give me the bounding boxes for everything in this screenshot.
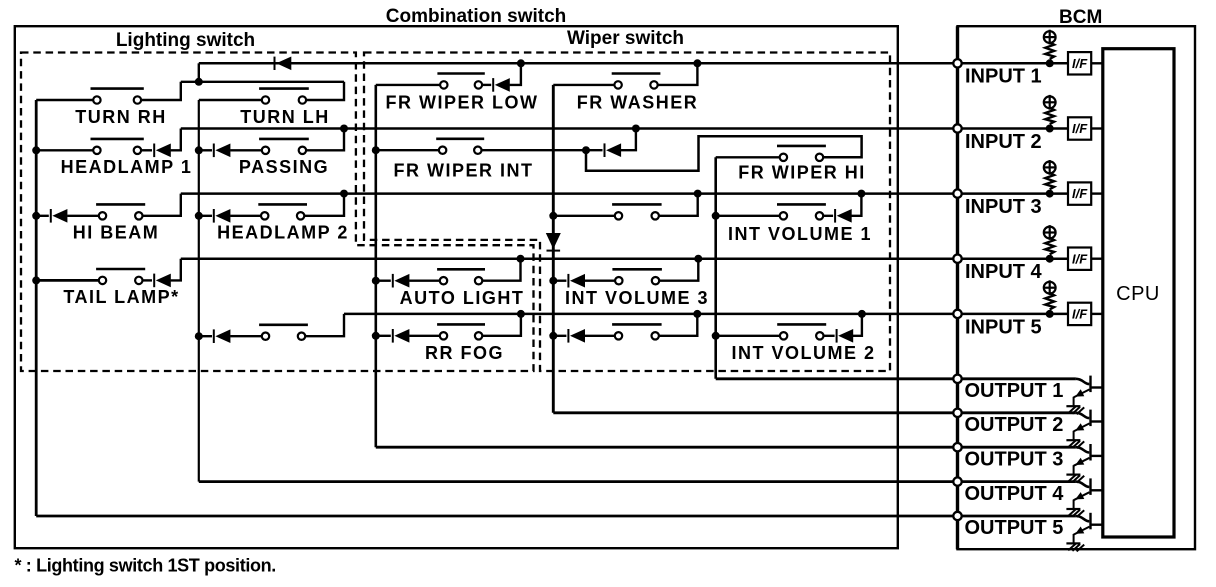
wire HEADLAMP 2 right lead — [304, 194, 344, 216]
junction autolight bus — [372, 277, 380, 285]
junction passing bus — [195, 146, 203, 154]
note lighting 1ST position — [15, 556, 276, 576]
svg-text:TAIL LAMP*: TAIL LAMP* — [63, 287, 179, 307]
ground Q1 — [1066, 406, 1084, 414]
svg-text:CPU: CPU — [1116, 283, 1160, 305]
svg-text:* : Lighting switch 1ST positi: * : Lighting switch 1ST position. — [15, 556, 276, 576]
label TURN LH — [240, 107, 330, 127]
power symbol battery 3 — [1044, 160, 1056, 175]
diode D3 passing — [214, 144, 231, 158]
label HI BEAM — [73, 223, 160, 243]
wire int sw2 left lead — [585, 335, 615, 337]
wire int sw1 right lead — [659, 194, 698, 216]
junction intvolume2 bus — [712, 332, 720, 340]
svg-text:INPUT 4: INPUT 4 — [965, 261, 1043, 283]
svg-text:I/F: I/F — [1072, 56, 1088, 71]
label AUTO LIGHT — [400, 288, 525, 308]
switch FR WIPER INT — [436, 139, 484, 154]
interface I/F 1 — [1068, 52, 1091, 74]
wire INPUT 4 — [181, 257, 1068, 260]
wire headlamp1 riser to INPUT 2 — [171, 129, 181, 151]
wire I/F 4 to CPU — [1091, 258, 1103, 260]
node INPUT 2 — [953, 124, 961, 132]
label TURN RH — [75, 107, 167, 127]
wire HI BEAM right lead — [142, 194, 181, 216]
power symbol battery 1 — [1044, 30, 1056, 45]
junction intvolume3 INPUT 4 — [694, 255, 702, 263]
junction frwasher INPUT 1 — [693, 59, 701, 67]
switch HEADLAMP 1 — [91, 139, 144, 154]
wire turn common — [181, 81, 344, 83]
wire frwiperint to frwiperhi link — [586, 136, 862, 171]
wire turn riser to INPUT 1 — [198, 63, 200, 82]
diode D1 turn to INPUT 1 — [248, 57, 297, 71]
wire TURN RH right lead — [141, 82, 181, 100]
transistor Q1 — [1074, 376, 1103, 407]
wire intvolume1 riser to INPUT 3 — [852, 194, 862, 216]
junction INPUT 4 pull-up — [1046, 255, 1054, 263]
junction INPUT 5 pull-up — [1046, 310, 1054, 318]
wire INPUT 2 — [181, 127, 1068, 130]
ground Q2 — [1066, 440, 1084, 448]
svg-text:I/F: I/F — [1072, 121, 1088, 136]
wire OUTPUT 3 — [376, 446, 1076, 449]
switch INT VOLUME 3 — [612, 269, 662, 284]
node OUTPUT 1 — [953, 375, 961, 383]
junction int sw2 INPUT 5 — [693, 310, 701, 318]
wire TAIL LAMP right lead — [142, 279, 152, 281]
interface I/F 4 — [1068, 248, 1091, 270]
wire PASSING right lead — [306, 129, 344, 151]
wire INT VOLUME 2 right lead — [823, 335, 835, 337]
svg-text:TURN LH: TURN LH — [240, 107, 330, 127]
diode D12 autolight — [393, 274, 410, 288]
wire FR WIPER INT right lead — [481, 149, 586, 151]
wire OUTPUT 4 — [199, 480, 1076, 483]
svg-text:I/F: I/F — [1072, 186, 1088, 201]
switch TURN RH — [91, 89, 144, 104]
label INPUT 5 — [965, 316, 1042, 338]
svg-text:INPUT 5: INPUT 5 — [965, 316, 1042, 338]
switch FR WIPER LOW — [437, 74, 484, 89]
label Lighting switch — [116, 30, 255, 51]
junction INPUT 3 pull-up — [1046, 190, 1054, 198]
wire I/F 3 to CPU — [1091, 192, 1103, 194]
wire washer bus — [552, 85, 555, 413]
junction taillamp bus — [32, 276, 40, 284]
junction intvolume2 INPUT 5 — [858, 310, 866, 318]
wire INT VOLUME 1 left lead — [716, 215, 780, 217]
label OUTPUT 3 — [965, 448, 1064, 470]
interface I/F 2 — [1068, 117, 1091, 139]
svg-text:OUTPUT 1: OUTPUT 1 — [965, 380, 1064, 402]
transistor Q4 — [1074, 478, 1103, 509]
switch TAIL LAMP — [96, 269, 145, 284]
svg-text:INT VOLUME 1: INT VOLUME 1 — [728, 224, 872, 244]
svg-text:INT VOLUME 3: INT VOLUME 3 — [565, 288, 709, 308]
wire HI BEAM left lead — [67, 215, 99, 217]
wire OUTPUT 5 — [36, 515, 1076, 518]
svg-text:I/F: I/F — [1072, 251, 1088, 266]
wire OUTPUT 2 — [553, 411, 1076, 414]
power symbol battery 5 — [1044, 280, 1056, 295]
diode D13 intvolume3 — [568, 274, 585, 288]
svg-text:OUTPUT 3: OUTPUT 3 — [965, 448, 1064, 470]
svg-text:OUTPUT 2: OUTPUT 2 — [965, 414, 1064, 436]
node OUTPUT 5 — [953, 512, 961, 520]
wire taillamp riser to INPUT 4 — [171, 259, 181, 281]
wire HI BEAM diode lead — [36, 215, 49, 217]
switch FR WASHER — [612, 74, 661, 89]
switch S3 wiper int 2 — [612, 324, 662, 339]
wire INT VOLUME 2 left lead — [716, 335, 781, 337]
label Wiper switch — [567, 28, 684, 49]
wire INT VOLUME 3 diode lead — [553, 280, 566, 282]
svg-text:INPUT 2: INPUT 2 — [965, 131, 1042, 153]
resistor R1 pull-up — [1045, 43, 1054, 59]
wire INPUT 5 — [344, 313, 1068, 316]
junction intvolume3 bus — [549, 277, 557, 285]
diode D16 intvolume2 — [837, 329, 854, 343]
wire int sw2 right lead — [659, 314, 698, 336]
label FR WIPER INT — [394, 161, 534, 181]
junction frwiperint node — [582, 146, 590, 154]
junction rrfog INPUT 5 — [517, 310, 525, 318]
wire INT VOLUME 3 right lead — [659, 259, 699, 281]
wire FR WIPER HI left lead — [716, 156, 780, 158]
diode D6 taillamp — [154, 274, 171, 288]
transistor Q3 — [1074, 444, 1103, 475]
diode D11 washer bus — [546, 233, 561, 251]
diode D15 int sw2 — [568, 329, 585, 343]
resistor R3 pull-up — [1045, 173, 1054, 189]
junction headlamp1 bus — [32, 146, 40, 154]
label TAIL LAMP* — [63, 287, 179, 307]
junction frwiperint INPUT 2 — [632, 125, 640, 133]
label OUTPUT 4 — [965, 483, 1065, 505]
wire TURN LH left lead — [199, 99, 262, 101]
label FR WIPER HI — [738, 163, 866, 183]
wire frwiperint riser to INPUT 2 — [621, 129, 636, 151]
wire OUTPUT 1 — [716, 377, 1076, 380]
wire output1 bus — [714, 157, 717, 378]
wire HEADLAMP 1 left lead — [36, 149, 93, 151]
CPU box U1 — [1103, 49, 1174, 537]
wire int sw2 diode lead — [553, 335, 566, 337]
switch TURN LH — [259, 89, 309, 104]
wire FR WASHER left lead — [553, 84, 615, 86]
diode D7 lighting row5 — [214, 329, 231, 343]
svg-text:Lighting switch: Lighting switch — [116, 30, 255, 51]
label INPUT 1 — [965, 66, 1042, 88]
switch S2 wiper int — [612, 204, 662, 219]
switch PASSING — [259, 139, 309, 154]
label FR WASHER — [577, 92, 699, 112]
svg-text:Combination switch: Combination switch — [386, 6, 567, 27]
wire RR FOG left lead — [409, 335, 440, 337]
wire AUTO LIGHT left lead — [409, 280, 440, 282]
diode D9 frwiperint — [605, 143, 622, 157]
diode D10 intvolume1 — [835, 209, 852, 223]
svg-text:BCM: BCM — [1059, 7, 1102, 28]
wire INPUT 3 — [181, 192, 1068, 195]
wire RR FOG right lead — [482, 314, 521, 336]
wire I/F 5 to CPU — [1091, 313, 1103, 315]
node OUTPUT 4 — [953, 477, 961, 485]
wire TURN LH right lead — [306, 82, 344, 100]
node INPUT 5 — [953, 310, 961, 318]
junction passing INPUT 2 — [340, 125, 348, 133]
junction headlamp2 INPUT 3 — [340, 190, 348, 198]
wire I/F 2 to CPU — [1091, 127, 1103, 129]
node INPUT 1 — [953, 59, 961, 67]
svg-text:RR FOG: RR FOG — [425, 343, 504, 363]
wire int sw1 left lead — [553, 215, 615, 217]
svg-text:AUTO LIGHT: AUTO LIGHT — [400, 288, 525, 308]
junction turn node — [195, 78, 203, 86]
svg-text:Wiper switch: Wiper switch — [567, 28, 684, 49]
svg-text:FR WIPER INT: FR WIPER INT — [394, 161, 534, 181]
label INPUT 4 — [965, 261, 1043, 283]
junction frwiperint bus — [372, 146, 380, 154]
junction headlamp2 bus — [195, 212, 203, 220]
label INPUT 3 — [965, 196, 1042, 218]
junction intvolume1 bus — [712, 212, 720, 220]
label INT VOLUME 2 — [731, 343, 875, 363]
wire AUTO LIGHT right lead — [482, 259, 521, 281]
wire FR WIPER LOW left lead — [376, 84, 441, 86]
svg-text:INPUT 1: INPUT 1 — [965, 66, 1042, 88]
svg-text:FR WIPER HI: FR WIPER HI — [738, 163, 866, 183]
switch FR WIPER HI — [777, 146, 826, 161]
resistor R5 pull-up — [1045, 293, 1054, 309]
wire lighting common bus — [35, 100, 38, 516]
wire lighting row5 right lead — [305, 314, 344, 336]
switch AUTO LIGHT — [437, 269, 485, 284]
svg-text:HEADLAMP 1: HEADLAMP 1 — [61, 157, 193, 177]
svg-text:FR WIPER LOW: FR WIPER LOW — [386, 92, 539, 112]
label RR FOG — [425, 343, 504, 363]
junction int sw2 bus — [549, 332, 557, 340]
label CPU — [1116, 283, 1160, 305]
svg-text:HI BEAM: HI BEAM — [73, 223, 160, 243]
wire lighting row5 diode lead — [199, 335, 212, 337]
wire wiper common bus — [374, 85, 377, 447]
label OUTPUT 1 — [965, 380, 1064, 402]
wire FR WASHER right lead — [657, 63, 697, 85]
switch INT VOLUME 1 — [777, 204, 826, 219]
wire lighting row5 left lead — [230, 335, 262, 337]
wire HEADLAMP 2 left lead — [230, 215, 261, 217]
label OUTPUT 5 — [965, 517, 1064, 539]
BCM box — [958, 26, 1196, 549]
wire PASSING diode lead — [199, 149, 212, 151]
junction intvolume1 INPUT 3 — [857, 190, 865, 198]
label INT VOLUME 3 — [565, 288, 709, 308]
wire INT VOLUME 3 left lead — [585, 280, 616, 282]
diode D2 headlamp1 — [154, 144, 171, 158]
title Combination switch — [386, 6, 567, 27]
switch INT VOLUME 2 — [777, 324, 826, 339]
wiper switch dashed box — [364, 53, 890, 372]
junction hibeam bus — [32, 212, 40, 220]
junction frwiperlow INPUT 1 — [517, 59, 525, 67]
wire INPUT 1 — [199, 62, 1068, 65]
label FR WIPER LOW — [386, 92, 539, 112]
switch RR FOG — [437, 324, 485, 339]
junction rrfog bus — [372, 332, 380, 340]
svg-text:TURN RH: TURN RH — [75, 107, 167, 127]
transistor Q5 — [1074, 513, 1103, 544]
wire output4 bus — [198, 100, 200, 482]
wire intvolume2 riser to INPUT 5 — [853, 314, 862, 336]
label HEADLAMP 2 — [217, 223, 349, 243]
transistor Q2 — [1074, 410, 1103, 441]
svg-text:INPUT 3: INPUT 3 — [965, 196, 1042, 218]
junction autolight INPUT 4 — [517, 255, 525, 263]
label PASSING — [239, 157, 329, 177]
wire FR WIPER LOW right lead — [482, 84, 492, 86]
wire FR WIPER INT left lead — [376, 149, 440, 151]
wire TURN RH left lead — [36, 99, 93, 101]
wire PASSING left lead — [230, 149, 262, 151]
svg-text:I/F: I/F — [1072, 307, 1088, 322]
title BCM — [1059, 7, 1102, 28]
svg-text:OUTPUT 4: OUTPUT 4 — [965, 483, 1065, 505]
node INPUT 3 — [953, 189, 961, 197]
wire I/F 1 to CPU — [1091, 62, 1103, 64]
resistor R2 pull-up — [1045, 108, 1054, 124]
node OUTPUT 2 — [953, 409, 961, 417]
diode D8 frwiperlow — [493, 78, 510, 92]
label INT VOLUME 1 — [728, 224, 872, 244]
wire INT VOLUME 1 right lead — [823, 215, 833, 217]
wire TAIL LAMP left lead — [36, 279, 99, 282]
label OUTPUT 2 — [965, 414, 1064, 436]
ground Q3 — [1066, 475, 1084, 483]
wire HEADLAMP 2 diode lead — [199, 215, 212, 217]
diode D14 rrfog — [393, 329, 410, 343]
power symbol battery 4 — [1044, 225, 1056, 240]
label HEADLAMP 1 — [61, 157, 193, 177]
junction lighting row5 bus — [195, 332, 203, 340]
junction INPUT 2 pull-up — [1046, 125, 1054, 133]
interface I/F 3 — [1068, 182, 1091, 204]
diode D5 headlamp2 — [214, 209, 231, 223]
wire AUTO LIGHT diode lead — [376, 280, 391, 282]
svg-text:PASSING: PASSING — [239, 157, 329, 177]
junction int sw1 bus — [549, 212, 557, 220]
node INPUT 4 — [953, 255, 961, 263]
switch HI BEAM — [96, 204, 145, 219]
svg-text:OUTPUT 5: OUTPUT 5 — [965, 517, 1064, 539]
junction int sw1 INPUT 3 — [694, 190, 702, 198]
svg-text:HEADLAMP 2: HEADLAMP 2 — [217, 223, 349, 243]
diode D4 hibeam — [51, 209, 68, 223]
label INPUT 2 — [965, 131, 1042, 153]
svg-text:FR WASHER: FR WASHER — [577, 92, 699, 112]
ground Q5 — [1066, 543, 1084, 551]
junction INPUT 1 pull-up — [1046, 59, 1054, 67]
svg-text:INT VOLUME 2: INT VOLUME 2 — [731, 343, 875, 363]
interface I/F 5 — [1068, 303, 1091, 325]
wire frwiperint diode lead — [586, 149, 603, 151]
node OUTPUT 3 — [953, 443, 961, 451]
wire HEADLAMP 1 right lead — [141, 149, 152, 151]
power symbol battery 2 — [1044, 95, 1056, 110]
switch S1 lighting 1ST position — [259, 325, 308, 340]
wire RR FOG diode lead — [376, 335, 391, 337]
switch HEADLAMP 2 — [258, 204, 307, 219]
lighting switch dashed box — [21, 53, 534, 372]
resistor R4 pull-up — [1045, 238, 1054, 254]
wire frwiperlow riser to INPUT 1 — [510, 63, 521, 85]
ground Q4 — [1066, 509, 1084, 517]
combination switch box — [15, 26, 898, 548]
